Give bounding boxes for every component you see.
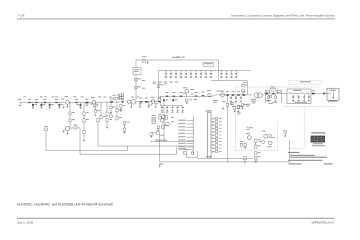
- ground column: [106, 122, 108, 129]
- label below chain x91: [90, 103, 93, 106]
- label mid chain: [194, 98, 197, 101]
- resistor R107 shunt to ground: [49, 102, 54, 109]
- ground bias column: [83, 133, 85, 141]
- capacitor C159 shunt row: [166, 106, 169, 113]
- cluster below final B: [241, 104, 246, 110]
- resistor R121: [70, 125, 81, 130]
- capacitor C116: [106, 102, 112, 122]
- capacitor C150 series: [165, 92, 168, 97]
- switch block body: [265, 90, 281, 104]
- resistor R113 bias column 2: [83, 115, 89, 133]
- transistor Q105: [151, 97, 156, 104]
- label below chain x87: [85, 104, 88, 107]
- transistor Q108 final: [220, 91, 225, 98]
- connector pin 7: [212, 138, 216, 139]
- wire bias feed: [69, 102, 71, 112]
- label near boundary: [222, 101, 226, 109]
- resistor R193 pin 8: [215, 141, 221, 143]
- note 1: [288, 152, 299, 153]
- wire rail corner: [218, 60, 220, 70]
- inductor L211 pre-driver stub: [110, 102, 116, 118]
- control block U102: [152, 115, 156, 124]
- label q101 area: [65, 95, 68, 98]
- resistor R195 pin 10: [215, 147, 221, 149]
- net 9.3V: [178, 136, 193, 137]
- wire Q102 collector: [96, 101, 120, 103]
- transistor Q109: [246, 133, 252, 140]
- capacitor C161 shunt row: [176, 106, 179, 113]
- note 3: [288, 160, 322, 161]
- capacitor C132 decoupling: [180, 70, 183, 78]
- label rail: [172, 56, 181, 59]
- capacitor C184 jack series: [323, 93, 325, 95]
- label chain x99: [98, 96, 101, 99]
- resistor R106 shunt to ground: [40, 102, 45, 109]
- resistor R144 shunt: [139, 102, 141, 108]
- wire switch rx tap: [276, 89, 278, 94]
- connector J101 body: [206, 110, 212, 158]
- harmonic filter box: [287, 89, 311, 104]
- wire final bias down: [227, 106, 229, 154]
- capacitor C130 decoupling: [170, 70, 173, 78]
- capacitor C123 series: [121, 99, 124, 103]
- diode D178 switch top: [270, 87, 276, 91]
- ground Q103 emitter: [66, 132, 68, 135]
- label switch: [266, 100, 277, 103]
- capacitor C206 control: [157, 126, 159, 131]
- capacitor C183 antenna series: [312, 90, 315, 94]
- capacitor C181 filter shunt: [303, 94, 305, 102]
- capacitor C136 decoupling: [200, 70, 203, 78]
- inductor L112 filter coil 2: [294, 92, 298, 95]
- wire switch chain: [264, 93, 287, 95]
- capacitor C173 B+ drop column 2: [242, 83, 248, 96]
- connector pin 1: [212, 118, 216, 119]
- inductor L208 series pre-driver: [110, 99, 113, 103]
- resistor R191 pin 6: [215, 134, 221, 136]
- inductor L176 switch shunt: [267, 94, 269, 102]
- wire filter out: [311, 93, 322, 95]
- label final 3: [246, 104, 250, 107]
- label chain x82: [81, 95, 84, 98]
- transistor Q101: [61, 99, 69, 106]
- resistor R108 shunt to ground: [58, 102, 63, 109]
- capacitor C137 decoupling: [205, 70, 208, 78]
- net short row: [178, 148, 193, 149]
- label below chain x142: [139, 102, 142, 105]
- bias box dashed bottom: [236, 149, 278, 151]
- capacitor C104 series: [55, 99, 58, 103]
- capacitor C166 output match: [242, 91, 245, 95]
- resistor R210 above driver: [118, 93, 123, 102]
- label filter bottom: [295, 101, 308, 104]
- resistor R202 lower column: [255, 152, 261, 163]
- label boundary region: [237, 112, 240, 115]
- resistor R189 pin 4: [215, 127, 221, 129]
- resistor R204 control: [158, 114, 161, 119]
- capacitor C203 lower: [244, 157, 247, 163]
- wire right section vertical: [289, 140, 291, 162]
- resistor R155 below mid chain: [163, 99, 168, 101]
- connector pin 3: [212, 124, 216, 125]
- wire ground rail extension: [257, 161, 290, 163]
- wire mid chain: [161, 95, 216, 96]
- transistor Q110: [262, 131, 268, 139]
- inductor L114 filter coil 4: [305, 92, 309, 95]
- capacitor C125 riser bypass: [135, 78, 141, 81]
- net PA KEY: [178, 120, 193, 121]
- resistor R110 shunt: [76, 102, 81, 109]
- transistor Q103: [64, 127, 71, 133]
- pass transistor Q112: [161, 119, 165, 123]
- capacitor C103 series: [43, 99, 46, 103]
- capacitor C143 series: [139, 98, 142, 103]
- label above y158: [206, 156, 212, 157]
- resistor R118 small column: [124, 121, 130, 133]
- note 4: [288, 163, 301, 164]
- wire final bias join: [227, 154, 229, 162]
- capacitor C134 decoupling: [190, 70, 193, 78]
- resistor R117 column: [116, 102, 122, 120]
- wire shunt row feed: [161, 96, 183, 106]
- label rail1 upper: [176, 56, 185, 59]
- transistor Q107: [207, 90, 211, 97]
- label driver extra: [131, 96, 139, 99]
- label chain x104: [103, 96, 106, 99]
- connector pin 9: [212, 144, 216, 145]
- transistor Q102: [91, 97, 96, 105]
- ground driver emitter: [130, 104, 132, 109]
- capacitor C131 decoupling: [175, 70, 178, 78]
- wire y154 upturn: [176, 147, 178, 154]
- wire final chain: [216, 94, 253, 96]
- resistor R201 bias right: [269, 135, 275, 138]
- resistor R213 switch bias: [268, 95, 273, 104]
- shield boundary dashed left: [235, 87, 237, 150]
- resistor R112 bias column: [83, 102, 89, 115]
- label before final: [217, 90, 220, 93]
- resistor R194 pin 9: [215, 144, 221, 146]
- ground at Q101 emitter: [66, 105, 68, 108]
- resistor R149 on drop 2: [162, 125, 168, 128]
- capacitor C182 filter shunt: [308, 94, 310, 102]
- ground Q103 base: [62, 130, 64, 133]
- capacitor C129 decoupling: [165, 70, 168, 78]
- capacitor C147 series: [158, 98, 161, 103]
- transistor Q104 driver: [126, 100, 136, 105]
- capacitor C217 q105 shunt: [155, 103, 157, 108]
- inductor L145 series: [145, 98, 148, 103]
- net FWD PWR: [178, 130, 193, 131]
- antenna jack J102: [327, 88, 339, 101]
- net TX INH: [178, 139, 193, 140]
- wire control drop: [163, 101, 165, 141]
- label near riser: [142, 80, 145, 88]
- capacitor C141 decoupling: [230, 70, 233, 78]
- wire Q101 collector: [69, 101, 92, 103]
- label driver input: [118, 96, 122, 99]
- resistor R120: [69, 115, 75, 127]
- resistor R199 bias mid: [254, 139, 260, 148]
- wire loop bottom: [46, 149, 128, 151]
- label control mid: [171, 117, 174, 122]
- capacitor C126 riser bypass 2: [135, 86, 141, 89]
- resistor R156 below mid chain 2: [172, 99, 177, 101]
- inductor L111 series: [85, 99, 88, 103]
- ground at Q102: [93, 105, 95, 108]
- capacitor C133 decoupling: [185, 70, 188, 78]
- resistor R212 interstage cluster 2: [120, 105, 125, 112]
- connector pin 6: [212, 134, 216, 135]
- capacitor C162 shunt row: [181, 106, 184, 113]
- diode D175 series switch: [272, 93, 274, 95]
- net PA SUPPLY long: [150, 140, 193, 142]
- capacitor C168 output shunt: [235, 96, 237, 103]
- wire loop left vertical: [45, 131, 47, 151]
- wire vertical to bias rail: [79, 128, 81, 154]
- resistor R187 pin 2: [215, 121, 221, 123]
- transistor Q111: [267, 141, 272, 147]
- capacitor C101 series: [28, 99, 31, 103]
- net CNTL VOLT: [178, 123, 193, 124]
- wire drop x160: [159, 134, 161, 162]
- connector pin 8: [212, 141, 216, 142]
- resistor R115: [100, 102, 106, 119]
- inductor L127 B+ feed: [203, 62, 214, 66]
- resistor R200 bias left: [240, 141, 247, 149]
- drawing number 8485976E02: [324, 163, 333, 164]
- svg-text:Schematics, Component Location: Schematics, Component Location Diagrams,…: [231, 13, 335, 17]
- connector pin 2: [212, 121, 216, 122]
- resistor R170 final bias: [226, 96, 232, 106]
- capacitor C164 output match: [231, 91, 234, 95]
- net PA BIAS: [178, 133, 193, 134]
- resistor R214 bias interior extra: [247, 127, 253, 130]
- label below chain x152: [149, 104, 152, 107]
- label chain x74: [73, 95, 76, 98]
- net GND: [178, 146, 193, 147]
- net SPARE: [178, 143, 193, 144]
- capacitor C157 below mid chain 3: [186, 99, 192, 104]
- wire B+ rail: [159, 69, 251, 71]
- capacitor C177 switch shunt: [274, 94, 276, 102]
- net rail: [192, 116, 194, 154]
- wire driver out: [136, 101, 159, 103]
- capacitor C124 at regulator: [142, 56, 149, 63]
- shield boundary dashed bottom: [283, 106, 337, 108]
- capacitor C142 decoupling: [235, 70, 238, 78]
- resistor R186 pin 1: [215, 117, 221, 119]
- resistor R207 lower ctl: [150, 131, 159, 135]
- capacitor C114 at node: [94, 102, 100, 116]
- wire y154 bias rail: [80, 153, 177, 155]
- label Q106 cluster: [183, 89, 194, 94]
- capacitor C209 interstage cluster: [112, 95, 120, 100]
- connector J100 RF input: [18, 99, 22, 106]
- directional coupler L110: [254, 93, 262, 98]
- capacitor C151 series: [172, 92, 175, 97]
- svg-text:7-178: 7-178: [17, 13, 25, 17]
- resistor R190 pin 5: [215, 131, 221, 133]
- placement table grid: [311, 136, 325, 143]
- placement table caption: [312, 143, 326, 146]
- capacitor C154 series: [201, 92, 204, 97]
- resistor R148 on drop: [162, 115, 168, 118]
- resistor R188 pin 3: [215, 124, 221, 126]
- wire y162 ground rail: [160, 161, 257, 163]
- capacitor C109 series: [75, 99, 78, 103]
- capacitor C215 bias interior extra2: [259, 141, 264, 144]
- wire mid chain rise: [157, 96, 161, 101]
- wire y158 bias rail: [197, 157, 253, 159]
- connector pin 5: [212, 131, 216, 132]
- dashed coupler box: [289, 80, 321, 84]
- label final 2: [231, 102, 235, 105]
- ground input shunt: [62, 106, 64, 109]
- capacitor C138 decoupling: [210, 70, 213, 78]
- capacitor C153 series: [194, 92, 197, 97]
- shield boundary dashed top: [236, 86, 319, 88]
- wire B+ drop to final: [211, 70, 247, 94]
- svg-text:68P81076C20-O: 68P81076C20-O: [311, 221, 334, 225]
- resistor R119: [69, 112, 75, 115]
- resistor R128 rail left: [157, 84, 163, 87]
- capacitor C139 decoupling: [220, 70, 223, 78]
- resistor R105 shunt to ground: [32, 102, 37, 109]
- footer rule: [17, 217, 335, 220]
- capacitor C146 shunt: [147, 102, 149, 108]
- svg-text:HLE9043C, HLE9044C, and HLE906: HLE9043C, HLE9044C, and HLE9069B UHF 40-…: [17, 202, 114, 206]
- cluster below final A: [232, 106, 236, 112]
- dashed horizontal right section: [288, 147, 304, 149]
- ground ctl: [150, 135, 152, 138]
- label input extra: [23, 95, 54, 98]
- capacitor C160 shunt row: [171, 106, 174, 113]
- wire loop right vertical: [127, 146, 129, 150]
- note 2 line 2: [290, 157, 327, 158]
- label filter title: [294, 89, 302, 92]
- capacitor C140 decoupling: [225, 70, 228, 78]
- label coupler: [251, 99, 256, 104]
- connector pin 10: [212, 148, 216, 149]
- label below chain x97: [96, 104, 99, 107]
- wire coupler out: [262, 94, 264, 95]
- label chain x110: [109, 96, 112, 99]
- resistor R197 keying cluster: [184, 149, 198, 158]
- voltage regulator U101: [133, 67, 141, 74]
- wire rail left drop: [158, 70, 160, 99]
- wire 9.3V rail: [136, 59, 219, 61]
- placement table title: [311, 132, 325, 133]
- capacitor C163 output match: [226, 91, 229, 95]
- capacitor C152 series: [179, 92, 182, 97]
- capacitor C158 shunt row: [161, 106, 164, 113]
- connector pin 4: [212, 128, 216, 129]
- net CNTL long: [98, 145, 193, 147]
- label row above mid chain: [153, 82, 178, 85]
- label below chain x157: [155, 102, 158, 105]
- net TEMP: [178, 126, 193, 127]
- capacitor C171 near boundary: [237, 106, 243, 113]
- label final 1: [213, 100, 217, 103]
- pass transistor Q113: [166, 122, 170, 126]
- capacitor C122 on loop: [44, 126, 48, 131]
- resistor R196 pin 11: [215, 150, 221, 152]
- resistor R198 bias in: [238, 106, 244, 109]
- label control low: [160, 134, 163, 137]
- label input extra2: [44, 95, 58, 98]
- wire bias to ground rail: [256, 159, 258, 162]
- capacitor C167 output shunt: [230, 96, 232, 103]
- dashed vertical right section: [303, 107, 305, 149]
- label ground rail tap: [159, 164, 164, 168]
- resistor R172 B+ drop column: [242, 84, 248, 87]
- wire jack entry: [325, 93, 331, 95]
- transistor Q106: [183, 87, 189, 96]
- capacitor C180 filter shunt: [298, 94, 300, 102]
- wire input chain: [22, 101, 62, 103]
- capacitor C185 at drop: [97, 119, 99, 122]
- inductor L113 filter coil 3: [300, 92, 304, 95]
- connector pin 11: [212, 151, 216, 152]
- capacitor C135 decoupling: [195, 70, 198, 78]
- inductor L111 filter coil 1: [289, 92, 293, 95]
- header rule: [17, 18, 335, 21]
- resistor R192 pin 7: [215, 137, 221, 139]
- wire net drop x98: [97, 122, 99, 146]
- svg-text:July 1, 2002: July 1, 2002: [17, 221, 34, 225]
- capacitor C179 filter shunt: [292, 94, 294, 102]
- wire riser x136: [135, 60, 137, 100]
- note 2 line 1: [290, 155, 315, 156]
- capacitor C216 right of bias box: [284, 130, 286, 137]
- capacitor C174 series switch: [266, 93, 268, 95]
- capacitor C102 series: [35, 99, 38, 103]
- capacitor C165 output match: [237, 91, 240, 95]
- capacitor C169 output shunt: [240, 96, 242, 103]
- bias box dashed right: [277, 121, 279, 150]
- resistor R205 control 2: [165, 117, 167, 120]
